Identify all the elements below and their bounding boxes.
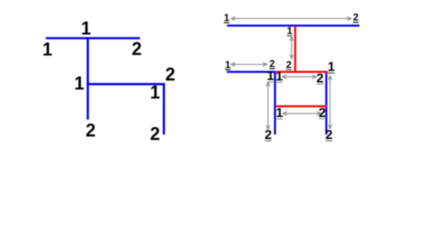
right diagram: top blue horizontal wire — [227, 25, 360, 27]
junction label 1 at top of right blue vertical — [328, 59, 335, 74]
svg-text:1: 1 — [74, 74, 84, 94]
arrow 5 label 2 (right end) — [319, 105, 326, 120]
junction label 1 left of left blue vertical — [267, 68, 274, 83]
right diagram: bottom red rung wire — [276, 105, 327, 107]
right diagram: right blue vertical wire — [325, 71, 327, 134]
svg-text:1: 1 — [328, 59, 335, 74]
arrow 1: top horizontal double arrow — [231, 17, 352, 21]
svg-text:1: 1 — [42, 40, 52, 60]
arrow 6 label 2 (bottom end) — [265, 127, 272, 142]
arrow 4 label 1 (left end) — [276, 68, 283, 83]
right diagram: left blue vertical wire — [274, 71, 276, 134]
svg-text:1: 1 — [276, 68, 283, 83]
left tree: edge D vertical wire — [163, 83, 165, 134]
arrow 5 label 1 (left end) — [276, 105, 283, 120]
arrow 3 label 1 (left end) — [225, 60, 231, 71]
arrow 2 label 1 (top end) — [287, 26, 293, 37]
right diagram: mid blue horizontal wire — [227, 71, 276, 73]
right diagram: mid red horizontal wire — [276, 71, 328, 73]
arrow 3: mid-left horizontal double arrow — [231, 63, 268, 67]
svg-text:2: 2 — [319, 105, 326, 120]
arrow 4: mid-right horizontal double arrow — [282, 75, 317, 79]
arrow 1 label 1 (left end) — [224, 13, 230, 24]
svg-text:1: 1 — [150, 83, 160, 103]
svg-text:1: 1 — [81, 19, 91, 39]
svg-text:1: 1 — [267, 68, 274, 83]
arrow 4 label 2 (right end) — [316, 70, 323, 85]
arrow 1 label 2 (right end) — [353, 13, 359, 24]
arrow 7 label 2 (bottom end) — [325, 127, 332, 142]
arrow 2 label 2 (bottom end) — [286, 60, 292, 71]
svg-text:2: 2 — [165, 64, 175, 84]
svg-text:2: 2 — [86, 121, 96, 141]
svg-text:2: 2 — [132, 39, 142, 59]
left tree: edge A horizontal wire — [46, 37, 140, 39]
svg-text:2: 2 — [265, 127, 272, 142]
arrow 5: bottom horizontal double arrow — [283, 112, 322, 116]
svg-text:1: 1 — [276, 105, 283, 120]
svg-text:2: 2 — [150, 124, 160, 144]
arrow 7: right vertical double arrow — [328, 75, 332, 129]
arrow 6: left vertical double arrow — [266, 82, 270, 130]
arrow 3 label 2 (right end) — [269, 59, 275, 70]
svg-text:2: 2 — [325, 127, 332, 142]
left tree: edge C horizontal wire — [87, 83, 164, 85]
svg-text:2: 2 — [316, 70, 323, 85]
left tree: edge B vertical wire — [87, 37, 89, 119]
arrow 2: vertical double arrow beside red stem — [290, 36, 294, 59]
right diagram: red vertical stem wire — [294, 26, 296, 72]
